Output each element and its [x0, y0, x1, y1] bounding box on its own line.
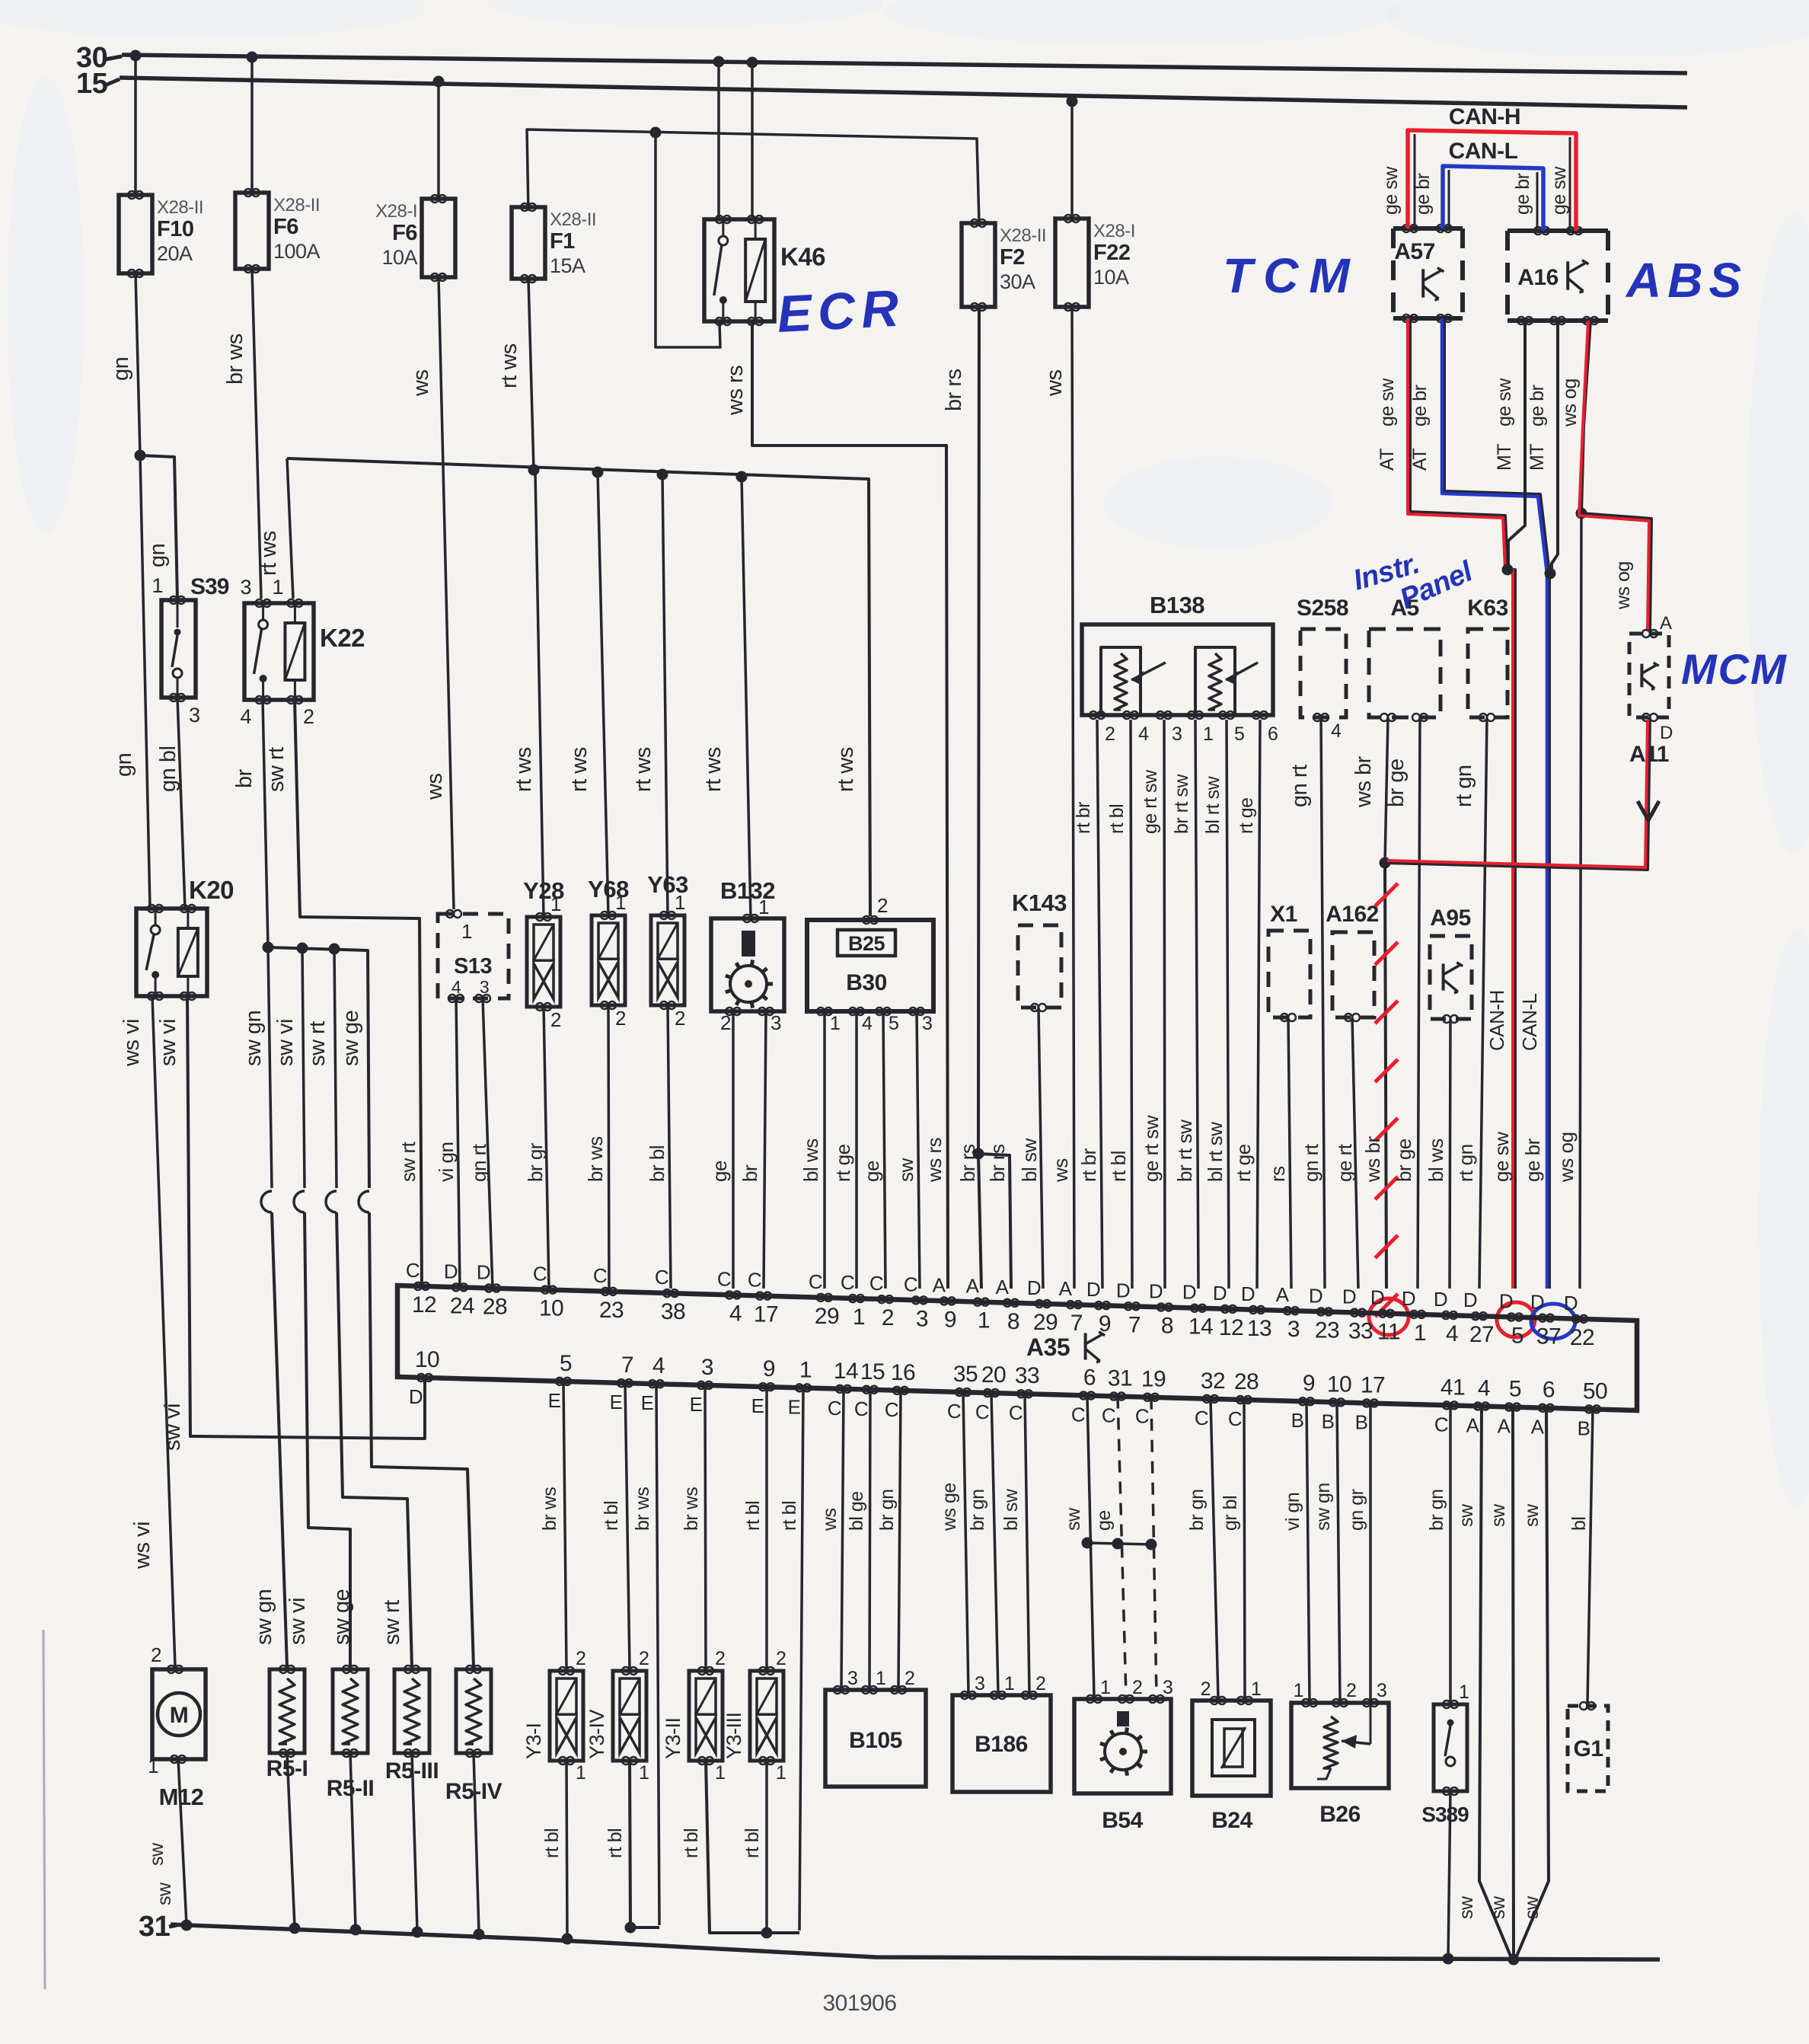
- fuse F1 15A: [512, 207, 545, 279]
- svg-text:1: 1: [853, 1305, 865, 1330]
- svg-text:ws vi: ws vi: [130, 1522, 155, 1570]
- wire hop arc 1: [261, 1191, 272, 1212]
- wire ws og A16 to junction: [1581, 321, 1590, 513]
- svg-text:1: 1: [876, 1668, 885, 1689]
- svg-text:ge sw: ge sw: [1494, 378, 1515, 426]
- wire rt ge B138 to A35: [1257, 720, 1260, 1289]
- svg-text:sw: sw: [1521, 1895, 1543, 1919]
- svg-text:ge sw: ge sw: [1377, 378, 1398, 426]
- wire gn rt S13 to A35 pin28: [483, 998, 493, 1289]
- svg-text:sw ge: sw ge: [339, 1011, 363, 1066]
- wire Y3-III return: [765, 1761, 768, 1933]
- svg-text:1: 1: [675, 891, 685, 914]
- svg-text:A: A: [1466, 1413, 1480, 1436]
- svg-text:bl rt sw: bl rt sw: [1202, 775, 1224, 834]
- wire sw triple to ground: [1479, 1406, 1514, 1963]
- wire sw M12 to bus31: [178, 1759, 187, 1924]
- svg-text:2: 2: [776, 1648, 786, 1669]
- wire sw rt drop: [334, 949, 337, 1188]
- svg-text:sw vi: sw vi: [156, 1019, 180, 1066]
- svg-text:sw: sw: [146, 1842, 167, 1866]
- svg-text:sw: sw: [1521, 1503, 1543, 1527]
- svg-text:K46: K46: [780, 242, 825, 270]
- wire rt ws to B132: [742, 477, 751, 918]
- switch S389: [1434, 1704, 1467, 1791]
- wire Y3-I return: [566, 1761, 567, 1937]
- svg-text:sw: sw: [1488, 1895, 1509, 1919]
- svg-text:MT: MT: [1494, 444, 1515, 471]
- svg-text:5: 5: [1234, 723, 1244, 745]
- svg-text:3: 3: [240, 576, 251, 599]
- wire ge rt sw B138 to A35: [1164, 720, 1165, 1289]
- svg-text:ws rs: ws rs: [723, 366, 748, 416]
- svg-text:E: E: [610, 1391, 623, 1413]
- connector X1: [1268, 931, 1310, 1017]
- svg-text:Y3-II: Y3-II: [662, 1717, 684, 1759]
- wire rt ge B30 to A35 pin1: [855, 1011, 858, 1289]
- wire hop arc 3: [326, 1191, 337, 1212]
- svg-text:ge rt: ge rt: [1333, 1143, 1356, 1182]
- svg-text:D: D: [1463, 1289, 1477, 1311]
- svg-text:K63: K63: [1467, 596, 1508, 621]
- svg-text:S258: S258: [1297, 596, 1348, 621]
- ECU A35 box: [397, 1285, 1637, 1410]
- svg-text:B: B: [1578, 1416, 1590, 1439]
- svg-text:30A: 30A: [1000, 270, 1035, 293]
- svg-text:rt bl: rt bl: [605, 1828, 626, 1858]
- svg-text:br gn: br gn: [967, 1490, 988, 1531]
- svg-text:C: C: [1434, 1413, 1448, 1436]
- sensor B24: [1192, 1701, 1271, 1796]
- wire br rt sw B138 to A35: [1195, 720, 1198, 1289]
- wire ge sw A16 top: [1569, 137, 1571, 231]
- svg-text:C: C: [947, 1400, 961, 1423]
- svg-text:rt ge: rt ge: [831, 1144, 854, 1182]
- svg-text:br ws: br ws: [681, 1487, 702, 1531]
- svg-text:29: 29: [1033, 1310, 1058, 1335]
- wire glow plug feed bus: [268, 947, 369, 1188]
- wire sw gn drop: [268, 947, 272, 1188]
- svg-text:14: 14: [834, 1359, 858, 1384]
- svg-text:A: A: [966, 1275, 980, 1298]
- svg-text:4: 4: [729, 1301, 742, 1326]
- svg-text:G1: G1: [1573, 1736, 1603, 1761]
- svg-text:sw: sw: [1488, 1503, 1509, 1527]
- wire Y3-II return: [706, 1761, 799, 1933]
- svg-text:2: 2: [615, 1007, 626, 1030]
- wire br ge A5 to A35 pin1: [1418, 717, 1420, 1289]
- wire bus30 to F6: [250, 57, 254, 193]
- svg-text:1: 1: [799, 1357, 812, 1382]
- svg-text:3: 3: [1172, 723, 1182, 745]
- svg-text:K22: K22: [320, 624, 365, 652]
- svg-text:1: 1: [1459, 1682, 1469, 1703]
- svg-text:CAN-H: CAN-H: [1485, 990, 1508, 1051]
- svg-text:Y3-IV: Y3-IV: [585, 1709, 608, 1759]
- wire br bl Y63 to A35 pin38: [668, 1005, 671, 1289]
- fuse F10 20A: [119, 195, 152, 273]
- svg-text:41: 41: [1440, 1375, 1465, 1400]
- svg-text:35: 35: [953, 1362, 978, 1387]
- svg-text:B26: B26: [1319, 1802, 1361, 1827]
- svg-text:gr bl: gr bl: [1220, 1496, 1241, 1531]
- svg-text:bl sw: bl sw: [1018, 1139, 1041, 1182]
- svg-text:3: 3: [189, 704, 200, 727]
- svg-text:10: 10: [1327, 1372, 1351, 1397]
- svg-text:28: 28: [1234, 1369, 1259, 1394]
- svg-text:Y3-I: Y3-I: [522, 1723, 545, 1759]
- svg-text:100A: 100A: [273, 240, 321, 263]
- wire ws vi K20 to M12: [152, 996, 175, 1667]
- svg-text:sw ge: sw ge: [330, 1589, 354, 1645]
- svg-text:12: 12: [412, 1292, 436, 1317]
- svg-text:CAN-H: CAN-H: [1449, 104, 1520, 129]
- wire ge rt A162 to A35 pin33: [1352, 1017, 1358, 1289]
- svg-text:3: 3: [916, 1306, 928, 1331]
- fuse F2 30A: [962, 223, 995, 307]
- svg-text:2: 2: [882, 1305, 894, 1330]
- svg-text:S13: S13: [454, 954, 492, 979]
- wire sw gn to R5-I: [272, 1212, 287, 1667]
- wires below A35 with labels: [563, 1381, 566, 1669]
- svg-text:A: A: [1059, 1277, 1073, 1300]
- svg-text:37: 37: [1536, 1324, 1561, 1349]
- sensor B132: [711, 918, 784, 1011]
- svg-text:gn rt: gn rt: [467, 1143, 490, 1182]
- svg-text:50: 50: [1583, 1378, 1607, 1404]
- svg-text:ge rt sw: ge rt sw: [1140, 769, 1161, 834]
- relay connector K63: [1468, 629, 1507, 717]
- svg-text:bl ws: bl ws: [799, 1139, 822, 1182]
- wire br rs branch to A35 pin8: [978, 1154, 1011, 1289]
- wire sw rt to R5-III: [337, 1212, 412, 1667]
- svg-text:C: C: [975, 1400, 989, 1423]
- svg-text:3: 3: [847, 1668, 857, 1689]
- wire S389 to bus31: [1448, 1791, 1450, 1959]
- svg-text:B186: B186: [975, 1732, 1028, 1757]
- svg-text:1: 1: [639, 1762, 649, 1784]
- svg-text:301906: 301906: [822, 1991, 896, 2016]
- svg-text:19: 19: [1141, 1367, 1166, 1392]
- svg-text:rt ws: rt ws: [567, 747, 592, 792]
- ECU A35 bottom pins: [417, 1374, 425, 1381]
- svg-text:sw: sw: [1063, 1507, 1084, 1531]
- svg-text:CAN-L: CAN-L: [1449, 139, 1518, 164]
- svg-text:8: 8: [1161, 1313, 1173, 1338]
- svg-text:rt ws: rt ws: [512, 747, 536, 792]
- svg-text:1: 1: [715, 1762, 725, 1784]
- wire bl rt sw B138 to A35: [1227, 720, 1229, 1289]
- svg-text:23: 23: [599, 1298, 624, 1323]
- svg-text:rt ws: rt ws: [631, 747, 656, 792]
- svg-text:29: 29: [815, 1304, 839, 1329]
- svg-text:2: 2: [550, 1008, 561, 1031]
- svg-text:ws rs: ws rs: [923, 1137, 946, 1183]
- svg-text:ge: ge: [708, 1161, 731, 1182]
- svg-text:Y3-III: Y3-III: [723, 1712, 745, 1759]
- wire F6 to K22 pin3: [252, 269, 261, 599]
- svg-text:br gn: br gn: [1186, 1490, 1208, 1531]
- svg-text:3: 3: [1163, 1677, 1172, 1698]
- svg-text:15: 15: [860, 1359, 885, 1384]
- svg-text:sw: sw: [1456, 1895, 1477, 1919]
- svg-text:1: 1: [461, 920, 472, 943]
- svg-text:ECR: ECR: [776, 279, 906, 343]
- wire sw ge to R5-IV: [369, 1212, 474, 1667]
- svg-text:gn: gn: [145, 544, 170, 567]
- svg-text:bl rt sw: bl rt sw: [1204, 1122, 1227, 1182]
- svg-text:ws: ws: [1042, 370, 1067, 397]
- wire sw vi drop: [302, 948, 305, 1188]
- junction dots on bus 15: [433, 76, 445, 88]
- svg-text:gn rt: gn rt: [1300, 1143, 1322, 1182]
- wire ge br A57 top: [1448, 170, 1450, 228]
- svg-text:vi gn: vi gn: [1282, 1493, 1303, 1531]
- svg-text:A16: A16: [1517, 265, 1559, 290]
- svg-text:D: D: [1241, 1282, 1255, 1305]
- svg-text:4: 4: [862, 1013, 873, 1034]
- svg-text:20: 20: [981, 1362, 1006, 1388]
- svg-text:10A: 10A: [1093, 266, 1129, 289]
- svg-text:32: 32: [1201, 1369, 1225, 1394]
- svg-text:B: B: [1355, 1411, 1368, 1434]
- svg-text:ABS: ABS: [1625, 253, 1747, 308]
- svg-text:AT: AT: [1409, 449, 1431, 471]
- svg-text:F1: F1: [550, 229, 575, 254]
- wire rt ws to K22 pin1: [287, 458, 293, 599]
- svg-text:2: 2: [303, 705, 314, 728]
- svg-text:MT: MT: [1527, 444, 1548, 471]
- svg-text:24: 24: [450, 1293, 474, 1318]
- svg-text:ws br: ws br: [1351, 755, 1376, 808]
- svg-text:M: M: [170, 1703, 189, 1728]
- svg-text:D: D: [1564, 1292, 1578, 1314]
- svg-text:1: 1: [148, 1755, 158, 1777]
- svg-text:E: E: [690, 1393, 703, 1416]
- svg-text:3: 3: [1287, 1317, 1300, 1342]
- svg-text:rt br: rt br: [1077, 1148, 1100, 1182]
- relay K22: [244, 603, 314, 700]
- svg-text:rt ws: rt ws: [834, 747, 858, 792]
- relay K46: [704, 219, 774, 321]
- svg-text:ge: ge: [860, 1161, 883, 1182]
- wire sw vi to R5-II: [305, 1212, 350, 1667]
- wire gn junction to K20 pin left: [140, 455, 150, 909]
- svg-text:ge br: ge br: [1521, 1138, 1544, 1182]
- svg-text:2: 2: [877, 894, 888, 917]
- svg-text:2: 2: [151, 1643, 161, 1666]
- svg-text:ge sw: ge sw: [1490, 1132, 1513, 1182]
- junction dots on bus 30: [130, 50, 142, 62]
- svg-text:D: D: [1086, 1278, 1100, 1301]
- svg-text:C: C: [593, 1264, 607, 1287]
- wire bus15 to F6b: [437, 81, 440, 199]
- wire ws og junction to A11: [1581, 513, 1651, 631]
- wire bus 30: [122, 55, 1687, 73]
- svg-text:D: D: [444, 1260, 458, 1282]
- svg-text:rt bl: rt bl: [541, 1828, 563, 1858]
- relay K20: [136, 909, 207, 996]
- svg-text:9: 9: [763, 1356, 775, 1381]
- svg-text:1: 1: [1100, 1677, 1110, 1698]
- svg-text:br rt sw: br rt sw: [1173, 1119, 1196, 1182]
- wire CAN-H red top: [1408, 130, 1576, 231]
- svg-text:12: 12: [1219, 1315, 1243, 1340]
- control unit A11: [1629, 634, 1669, 717]
- svg-text:B30: B30: [846, 970, 887, 995]
- svg-text:3: 3: [975, 1673, 984, 1694]
- svg-text:1: 1: [1004, 1673, 1014, 1694]
- wire ge sw A57 top: [1414, 134, 1416, 228]
- svg-text:br ge: br ge: [1384, 759, 1409, 807]
- svg-text:B: B: [1291, 1409, 1304, 1432]
- svg-text:5: 5: [1511, 1323, 1523, 1348]
- wire sw rt K22 pin2 to A35 pin12: [295, 700, 422, 1289]
- solenoid valve Y3-IV: [613, 1671, 646, 1761]
- svg-text:vi gn: vi gn: [435, 1142, 458, 1182]
- svg-text:3: 3: [770, 1011, 781, 1034]
- wire ws br A5 to junction: [1385, 717, 1388, 863]
- svg-text:23: 23: [1315, 1317, 1339, 1343]
- fuse F22 10A: [1055, 219, 1089, 307]
- svg-text:B138: B138: [1150, 592, 1204, 618]
- svg-text:K143: K143: [1012, 889, 1067, 916]
- wire ge B132 to A35 pin4: [732, 1011, 735, 1289]
- red hash marks MCM trace: [1375, 883, 1398, 906]
- svg-text:2: 2: [1346, 1680, 1356, 1701]
- wire ge sw A16 join: [1508, 321, 1525, 570]
- wire bl sw K143 to A35 pin29b: [1038, 1008, 1043, 1289]
- sensor B186: [952, 1695, 1051, 1792]
- svg-text:5: 5: [560, 1351, 572, 1376]
- wire ge sw A57 to A35 pin5: [1410, 318, 1515, 1289]
- svg-text:D: D: [1530, 1291, 1544, 1314]
- solenoid valve Y3-I: [550, 1671, 583, 1761]
- svg-text:B25: B25: [848, 932, 885, 955]
- wire gn bus30 to F10: [134, 56, 137, 195]
- svg-text:1: 1: [776, 1762, 786, 1784]
- wire K46 contact feed to F1 and F2: [527, 129, 979, 222]
- svg-text:rt ge: rt ge: [1232, 1144, 1255, 1182]
- svg-text:8: 8: [1007, 1309, 1019, 1334]
- svg-text:ge br: ge br: [1409, 385, 1431, 426]
- switch connector S258: [1300, 629, 1346, 717]
- svg-text:7: 7: [621, 1353, 633, 1378]
- generator G1: [1568, 1706, 1608, 1791]
- wire hop arc 2: [294, 1191, 305, 1212]
- svg-text:31: 31: [1108, 1366, 1132, 1391]
- wire A11 to A35 pin11: [1385, 717, 1650, 1289]
- sensor B26: [1291, 1703, 1389, 1788]
- switch S13 connector: [438, 914, 509, 998]
- svg-text:A: A: [1276, 1283, 1290, 1306]
- wire rt bl B138 to A35: [1131, 720, 1132, 1289]
- wire ge br A57 to A35 pin37: [1444, 318, 1549, 1289]
- junction CAN-L: [1545, 568, 1556, 580]
- wire bus15 to F22: [1070, 101, 1074, 219]
- svg-text:ws: ws: [423, 774, 447, 800]
- svg-text:D: D: [409, 1385, 423, 1408]
- svg-text:D: D: [1149, 1279, 1163, 1302]
- wire R5-III to bus31: [412, 1753, 417, 1931]
- svg-text:CAN-L: CAN-L: [1518, 993, 1541, 1051]
- svg-text:1: 1: [272, 576, 283, 599]
- svg-text:1: 1: [550, 893, 561, 915]
- svg-text:rt ws: rt ws: [257, 531, 281, 576]
- wire rs X1 to A35 pin3: [1288, 1017, 1291, 1289]
- svg-text:br gn: br gn: [1426, 1490, 1447, 1531]
- svg-text:sw: sw: [154, 1882, 175, 1905]
- svg-text:S39: S39: [190, 574, 229, 599]
- svg-text:F6: F6: [392, 221, 417, 245]
- svg-text:13: 13: [1247, 1316, 1271, 1341]
- glow plug R5-IV: [456, 1669, 491, 1753]
- svg-text:rt ws: rt ws: [701, 747, 726, 792]
- svg-text:X28-II: X28-II: [550, 209, 596, 230]
- svg-text:1: 1: [830, 1013, 840, 1034]
- svg-text:ws: ws: [819, 1508, 841, 1531]
- svg-text:33: 33: [1348, 1319, 1373, 1344]
- svg-text:bl ws: bl ws: [1425, 1139, 1447, 1182]
- svg-text:9: 9: [944, 1307, 956, 1332]
- svg-text:C: C: [717, 1267, 731, 1290]
- svg-text:3: 3: [480, 977, 489, 997]
- svg-text:17: 17: [1361, 1373, 1385, 1398]
- svg-text:1: 1: [1294, 1680, 1303, 1701]
- svg-text:4: 4: [1331, 720, 1342, 742]
- svg-text:br ws: br ws: [539, 1487, 560, 1531]
- svg-text:ge rt sw: ge rt sw: [1140, 1115, 1163, 1182]
- svg-text:E: E: [788, 1395, 801, 1418]
- svg-text:br rs: br rs: [956, 1144, 979, 1182]
- arrow on A11 wire: [1638, 801, 1659, 820]
- junction dots on bus 31: [181, 1920, 193, 1931]
- wire gn bl S39 to K20: [177, 698, 185, 909]
- svg-text:6: 6: [1543, 1378, 1555, 1403]
- svg-text:15: 15: [76, 68, 108, 100]
- svg-text:br ws: br ws: [632, 1487, 653, 1531]
- wire rt ws to Y28: [535, 472, 544, 917]
- solenoid valve Y28: [527, 917, 560, 1007]
- control unit A95: [1430, 936, 1472, 1019]
- svg-text:MCM: MCM: [1681, 645, 1788, 693]
- svg-text:ws: ws: [409, 370, 433, 397]
- svg-text:ws ge: ws ge: [939, 1483, 960, 1531]
- svg-text:br gn: br gn: [876, 1490, 898, 1531]
- glow plug R5-III: [394, 1669, 429, 1753]
- wire F1 to distribution line: [528, 279, 534, 470]
- wire br K22 pin4 to glow bus: [263, 700, 268, 947]
- svg-text:2: 2: [715, 1648, 725, 1669]
- sensor B138: [1082, 624, 1273, 715]
- svg-text:ge sw: ge sw: [1549, 166, 1570, 215]
- svg-text:gn rt: gn rt: [1287, 765, 1312, 807]
- svg-text:br: br: [739, 1164, 761, 1182]
- wire R5-IV to bus31: [474, 1753, 479, 1932]
- svg-text:33: 33: [1015, 1363, 1039, 1388]
- svg-text:4: 4: [451, 977, 461, 997]
- fuse F6 100A: [235, 193, 269, 269]
- svg-text:2: 2: [1201, 1678, 1211, 1700]
- svg-text:gn: gn: [109, 357, 133, 381]
- svg-text:C: C: [1102, 1404, 1115, 1427]
- svg-text:X1: X1: [1270, 902, 1297, 927]
- svg-text:C: C: [655, 1266, 668, 1289]
- wire bus 15: [120, 78, 1687, 107]
- control unit A16 ABS: [1507, 228, 1608, 233]
- svg-text:C: C: [885, 1398, 898, 1421]
- wire hop arc 4: [359, 1191, 369, 1212]
